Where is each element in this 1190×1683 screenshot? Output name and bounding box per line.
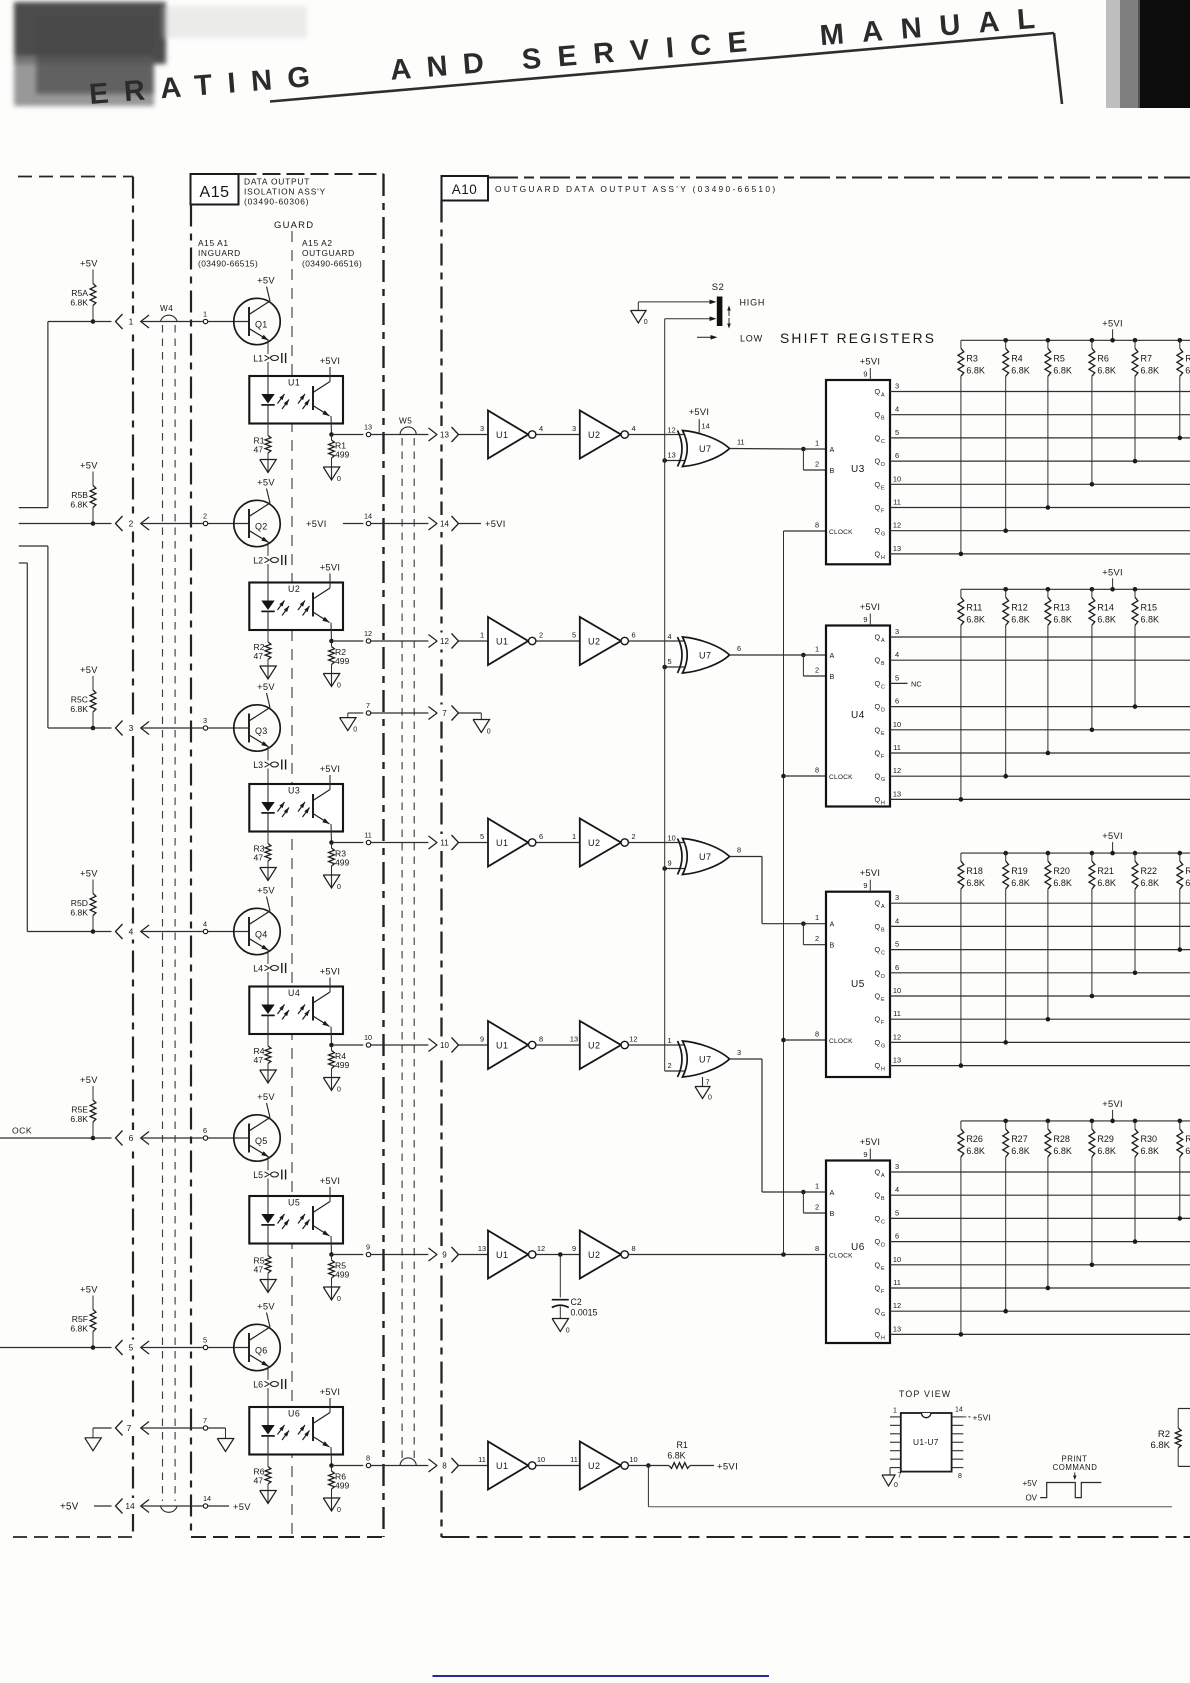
- resistor R27 6.8K pull-up: [1003, 1119, 1008, 1124]
- wire R21 to Q line: [1091, 889, 1093, 996]
- svg-text:L3: L3: [253, 760, 263, 770]
- optocoupler U3 phototransistor: [312, 794, 314, 818]
- svg-text:A: A: [881, 904, 885, 910]
- svg-text:+5VI: +5VI: [320, 764, 341, 774]
- svg-text:4: 4: [895, 650, 899, 659]
- resistor R12 6.8K pull-up: [1003, 587, 1008, 592]
- svg-text:7: 7: [706, 1078, 710, 1087]
- wire junction to connector 3: [93, 727, 112, 729]
- svg-text:U3: U3: [288, 786, 300, 796]
- svg-text:SHIFT REGISTERS: SHIFT REGISTERS: [780, 331, 936, 346]
- resistor R30 6.8K pull-up: [1133, 1119, 1138, 1124]
- IC pin line left 1: [890, 1416, 901, 1418]
- svg-text:U1: U1: [288, 378, 300, 388]
- A10 entry label 9: [438, 1246, 452, 1263]
- svg-text:8: 8: [815, 1244, 819, 1253]
- connector chevron 1: [116, 314, 123, 329]
- svg-text:Q: Q: [875, 1191, 881, 1200]
- svg-text:9: 9: [442, 1251, 447, 1260]
- A10 entry label 11: [438, 834, 452, 851]
- optocoupler U6 box: [249, 1407, 343, 1455]
- svg-text:R5B: R5B: [71, 490, 88, 500]
- svg-text:10: 10: [893, 720, 901, 729]
- svg-text:B: B: [830, 1209, 835, 1218]
- svg-text:U1: U1: [496, 430, 509, 440]
- svg-text:R18: R18: [966, 866, 983, 876]
- svg-text:B: B: [881, 416, 885, 422]
- svg-text:D: D: [881, 1243, 885, 1249]
- svg-text:9: 9: [863, 370, 867, 379]
- svg-text:12: 12: [893, 1032, 901, 1041]
- svg-text:6: 6: [539, 832, 543, 841]
- pin node 2 on A15: [203, 521, 207, 525]
- svg-text:8: 8: [539, 1035, 543, 1044]
- junction R15 pull-up: [1133, 704, 1138, 709]
- ground 0 below R3 499: [323, 875, 340, 888]
- svg-text:6.8K: 6.8K: [1053, 614, 1072, 624]
- IC pin line left 4: [890, 1441, 901, 1443]
- wire row2 to left edge: [19, 523, 93, 525]
- wire R26 to Q line: [960, 1157, 962, 1335]
- junction clock to U4: [781, 774, 786, 779]
- wire bus to XOR lower input row 13: [665, 460, 686, 462]
- svg-text:9: 9: [366, 1243, 370, 1252]
- optocoupler U4 phototransistor: [312, 997, 314, 1021]
- wire pin to transistor Q1 base: [208, 321, 249, 323]
- connector chevron 14: [116, 1499, 123, 1514]
- svg-text:+5VI: +5VI: [1102, 567, 1123, 577]
- XOR gate U7 row 12: [678, 637, 683, 673]
- wire pin 7 to ground right: [208, 1427, 226, 1429]
- svg-text:4: 4: [895, 916, 899, 925]
- svg-text:LOW: LOW: [740, 334, 763, 344]
- wire R18 to Q line: [960, 889, 962, 1066]
- resistor R31 6.8K pull-up: [1178, 1119, 1183, 1124]
- svg-text:2: 2: [815, 1203, 819, 1212]
- XOR gate U7 row 10: [678, 1041, 683, 1077]
- +5VI rail for U3 bank: [961, 339, 1190, 341]
- svg-text:E: E: [881, 1266, 885, 1272]
- svg-text:5: 5: [895, 673, 899, 682]
- ground below R1 47: [260, 460, 277, 473]
- svg-text:OUTGUARD: OUTGUARD: [302, 248, 355, 258]
- clock bus vertical wire: [783, 531, 785, 1255]
- svg-text:+5VI: +5VI: [860, 602, 881, 612]
- svg-text:R1: R1: [677, 1440, 688, 1450]
- svg-text:OUTGUARD DATA OUTPUT ASS'Y (03: OUTGUARD DATA OUTPUT ASS'Y (03490-66510): [495, 184, 777, 194]
- A10 entry chevron 7: [452, 706, 459, 721]
- optocoupler U2 box: [249, 583, 343, 631]
- svg-text:U1: U1: [496, 1250, 509, 1260]
- svg-text:R30: R30: [1141, 1134, 1158, 1144]
- svg-text:8: 8: [442, 1462, 447, 1471]
- wire 10 across W5 with arrow: [371, 1044, 429, 1046]
- A15 bottom border: [191, 1536, 384, 1538]
- svg-text:8: 8: [737, 846, 741, 855]
- svg-text:3: 3: [895, 627, 899, 636]
- buffer U2 row 10: [580, 1021, 621, 1069]
- svg-text:6.8K: 6.8K: [70, 1114, 88, 1124]
- svg-text:7: 7: [127, 1423, 132, 1433]
- wire L5 to optocoupler: [267, 1179, 269, 1215]
- svg-text:B: B: [881, 1196, 885, 1202]
- svg-text:C2: C2: [571, 1297, 582, 1307]
- svg-text:U2: U2: [288, 584, 300, 594]
- svg-text:Q: Q: [875, 992, 881, 1001]
- junction C2 tap: [558, 1252, 563, 1257]
- wire R1 to +5VI: [690, 1465, 714, 1467]
- svg-text:6.8K: 6.8K: [966, 614, 985, 624]
- U3 pin 9 +5VI stub: [869, 368, 871, 380]
- svg-text:H: H: [881, 1067, 885, 1073]
- svg-text:2: 2: [815, 666, 819, 675]
- svg-text:Q: Q: [875, 549, 881, 558]
- svg-text:R19: R19: [1011, 866, 1028, 876]
- transistor Q4: [234, 908, 280, 954]
- wire R2 to right edge: [1177, 1448, 1179, 1466]
- svg-text:Q: Q: [875, 1284, 881, 1293]
- wire U1 to U2 row 11: [536, 842, 580, 844]
- wire Q5 emitter down: [267, 1157, 269, 1171]
- svg-text:4: 4: [129, 927, 134, 937]
- svg-text:14: 14: [125, 1501, 135, 1511]
- svg-text:L2: L2: [253, 556, 263, 566]
- blue pen mark bottom: [433, 1675, 770, 1677]
- svg-text:R15: R15: [1141, 602, 1158, 612]
- wire R19 to Q line: [1005, 889, 1007, 1042]
- junction R12 pull-up: [1003, 774, 1008, 779]
- pin node 9 on A15: [366, 1252, 370, 1256]
- junction R26 pull-up: [959, 1332, 964, 1337]
- svg-text:R4: R4: [1011, 353, 1023, 363]
- buffer U2 row 9: [580, 1231, 621, 1279]
- junction node output 12: [329, 639, 334, 644]
- svg-text:8: 8: [815, 521, 819, 530]
- svg-text:6: 6: [895, 451, 899, 460]
- svg-text:6.8K: 6.8K: [70, 1324, 88, 1334]
- IC pin line left 3: [890, 1433, 901, 1435]
- svg-text:U2: U2: [588, 838, 601, 848]
- wire L6 to optocoupler: [267, 1388, 269, 1425]
- svg-text:L6: L6: [253, 1380, 263, 1390]
- wire clock bus to U3 CLOCK: [784, 530, 827, 532]
- svg-text:Q: Q: [875, 749, 881, 758]
- wire output 13 to pin node: [334, 434, 363, 436]
- svg-text:+5V: +5V: [257, 886, 275, 896]
- svg-text:0: 0: [337, 476, 341, 483]
- transistor Q5: [234, 1115, 280, 1161]
- banner border line: [270, 33, 1054, 102]
- IC pin line left 6: [890, 1458, 901, 1460]
- svg-text:13: 13: [364, 423, 372, 432]
- svg-text:6: 6: [631, 631, 635, 640]
- svg-text:1: 1: [203, 310, 207, 319]
- wire with arrow row 7: [141, 1422, 149, 1435]
- svg-text:1: 1: [815, 1182, 819, 1191]
- optocoupler U4 box: [249, 987, 343, 1035]
- resistor R28 6.8K pull-up: [1046, 1119, 1051, 1124]
- svg-text:U6: U6: [851, 1242, 865, 1253]
- svg-text:499: 499: [335, 858, 350, 868]
- wire row3 feed from left edge: [19, 545, 48, 547]
- svg-text:12: 12: [537, 1244, 545, 1253]
- svg-text:R5: R5: [1053, 353, 1065, 363]
- svg-text:3: 3: [129, 723, 134, 733]
- A10 entry label 10: [438, 1037, 452, 1054]
- svg-text:Q: Q: [875, 968, 881, 977]
- wire R15 to Q line: [1134, 625, 1136, 706]
- svg-text:1: 1: [815, 439, 819, 448]
- junction node output 10: [329, 1043, 334, 1048]
- svg-text:0: 0: [566, 1328, 570, 1335]
- connector chevron 2: [116, 516, 123, 531]
- ground below R5 47: [260, 1280, 277, 1293]
- svg-text:Q: Q: [875, 899, 881, 908]
- svg-text:HIGH: HIGH: [740, 298, 766, 308]
- buffer U2 row 13: [580, 411, 621, 459]
- A10 entry label 14: [438, 515, 452, 532]
- svg-text:C: C: [881, 951, 885, 957]
- wire with arrow into A15 pin 6: [141, 1132, 149, 1145]
- svg-text:Q: Q: [875, 702, 881, 711]
- IC pin line right 12: [952, 1433, 964, 1435]
- svg-text:+5V: +5V: [257, 276, 275, 286]
- ground 0 below R4 499: [323, 1078, 340, 1091]
- junction U6 A input: [801, 1190, 806, 1195]
- optocoupler U6 phototransistor: [312, 1417, 314, 1441]
- A15 title box: [191, 174, 239, 205]
- junction R18 pull-up: [959, 1063, 964, 1068]
- svg-text:Q: Q: [875, 725, 881, 734]
- svg-text:+5V: +5V: [257, 1302, 275, 1312]
- wire output 10 to pin node: [334, 1044, 363, 1046]
- svg-text:13: 13: [570, 1035, 578, 1044]
- svg-text:E: E: [881, 485, 885, 491]
- svg-text:C: C: [881, 1219, 885, 1225]
- svg-text:Q: Q: [875, 1214, 881, 1223]
- A10 top border: [488, 177, 1190, 179]
- svg-text:6.8K: 6.8K: [70, 500, 88, 510]
- svg-text:R6: R6: [1097, 353, 1109, 363]
- junction R30 pull-up: [1133, 1239, 1138, 1244]
- svg-text:CLOCK: CLOCK: [829, 1252, 853, 1259]
- print command pointer arrow: [1074, 1473, 1076, 1478]
- left assembly box top border: [18, 176, 133, 178]
- optocoupler U5 box: [249, 1196, 343, 1244]
- svg-text:Q4: Q4: [255, 930, 268, 940]
- svg-text:Q: Q: [875, 433, 881, 442]
- pin node 7 on A15: [366, 711, 370, 715]
- wire pin 14 across W5 with arrow: [371, 523, 429, 525]
- svg-text:A10: A10: [452, 182, 478, 197]
- optocoupler U4 LED: [267, 987, 269, 1005]
- wire pin to transistor Q6 base: [208, 1347, 249, 1349]
- U5 pin 9 +5VI stub: [869, 880, 871, 892]
- svg-text:8: 8: [631, 1244, 635, 1253]
- buffer U1 row 8: [488, 1442, 528, 1490]
- svg-text:B: B: [881, 661, 885, 667]
- shift register U4 box: [826, 626, 890, 807]
- A15 top border: [239, 173, 384, 175]
- svg-text:12: 12: [893, 766, 901, 775]
- banner title OPERATING AND SERVICE MANUAL: [88, 2, 1054, 111]
- cable W5 shield dashed lines: [401, 438, 403, 1462]
- wire pin to transistor Q3 base: [208, 727, 249, 729]
- resistor R5 6.8K pull-up: [1046, 338, 1051, 343]
- wire pin 14 to +5V: [208, 1505, 229, 1507]
- svg-text:R2: R2: [1158, 1429, 1170, 1440]
- ground row 7 right: [217, 1439, 234, 1452]
- left assembly box bottom border: [13, 1536, 133, 1538]
- +5VI rail for U6 bank: [961, 1120, 1190, 1122]
- svg-text:+5V: +5V: [257, 682, 275, 692]
- svg-text:13: 13: [478, 1244, 486, 1253]
- svg-text:E: E: [881, 731, 885, 737]
- svg-text:6.8K: 6.8K: [966, 878, 985, 888]
- svg-text:+5VI: +5VI: [306, 519, 327, 529]
- svg-text:+5VI: +5VI: [485, 519, 506, 529]
- print command waveform: [1040, 1483, 1101, 1498]
- wire chevron to buffer U1 row 10: [459, 1044, 489, 1046]
- junction node channel 5: [91, 1345, 96, 1350]
- wire R23 to Q line: [1179, 889, 1181, 950]
- svg-text:0: 0: [487, 729, 491, 736]
- junction node channel 1: [91, 319, 96, 324]
- svg-text:11: 11: [893, 743, 901, 752]
- svg-text:0: 0: [894, 1482, 898, 1489]
- wire row1 to left edge: [48, 321, 93, 323]
- optocoupler U2 reception arrows: [298, 601, 305, 611]
- wire pin 7 to ground in A10: [459, 712, 482, 714]
- wire junction to connector 4: [93, 931, 112, 933]
- svg-text:+5VI: +5VI: [689, 407, 710, 417]
- svg-text:6: 6: [129, 1133, 134, 1143]
- svg-text:R5E: R5E: [71, 1105, 88, 1115]
- wire CLOCK feed row5: [0, 1137, 93, 1139]
- wire R30 to Q line: [1134, 1157, 1136, 1242]
- wire U1 to U2 row 9: [536, 1254, 580, 1256]
- svg-text:Q: Q: [875, 795, 881, 804]
- svg-text:+5V: +5V: [80, 461, 98, 471]
- svg-text:E: E: [881, 997, 885, 1003]
- svg-text:H: H: [881, 1335, 885, 1341]
- svg-text:0: 0: [337, 1087, 341, 1094]
- svg-text:+5VI: +5VI: [320, 563, 341, 573]
- svg-text:D: D: [881, 708, 885, 714]
- capacitor C2 0.0015: [559, 1255, 561, 1298]
- black corner block top-right: [1138, 0, 1190, 108]
- resistor R26 6.8K pull-up: [960, 1121, 962, 1129]
- svg-text:+5V: +5V: [80, 259, 98, 269]
- A10 entry label 8: [438, 1457, 452, 1474]
- svg-text:6.8K: 6.8K: [1053, 1146, 1072, 1156]
- connector chevron 5: [116, 1340, 123, 1355]
- junction node output 11: [329, 840, 334, 845]
- wire row6 feed from left edge: [0, 1347, 93, 1349]
- optocoupler U3 LED: [267, 784, 269, 802]
- svg-text:U2: U2: [588, 637, 601, 647]
- svg-text:A: A: [830, 1188, 835, 1197]
- optocoupler U2 LED: [267, 583, 269, 601]
- svg-text:4: 4: [668, 632, 672, 641]
- svg-text:47: 47: [253, 445, 263, 455]
- optocoupler U1 box: [249, 376, 343, 424]
- svg-text:B: B: [830, 941, 835, 950]
- svg-text:A: A: [830, 920, 835, 929]
- pin node 4 on A15: [203, 929, 207, 933]
- junction U5 A input: [801, 921, 806, 926]
- svg-text:0: 0: [708, 1095, 712, 1102]
- svg-text:R5A: R5A: [71, 288, 88, 298]
- wire R5 to Q line: [1047, 376, 1049, 507]
- guard partition dashed line: [291, 231, 293, 1537]
- A10 entry label 13: [438, 426, 452, 443]
- wire U2 to XOR U7 row 10: [628, 1044, 685, 1046]
- buffer U2 row 12: [580, 617, 621, 665]
- wire junction to connector 6: [93, 1137, 112, 1139]
- svg-text:2: 2: [668, 1061, 672, 1070]
- optocoupler U1 LED: [267, 376, 269, 394]
- A10 entry label 7: [438, 705, 452, 722]
- svg-text:Q: Q: [875, 772, 881, 781]
- IC pin line left 2: [890, 1424, 901, 1426]
- svg-text:9: 9: [863, 881, 867, 890]
- wire U2 to XOR U7 row 13: [628, 434, 685, 436]
- wire with arrow into A15 pin 5: [141, 1341, 149, 1354]
- connector chevron 3: [116, 721, 123, 736]
- ground 0 below R5 499: [323, 1287, 340, 1300]
- resistor R4 6.8K pull-up: [1003, 338, 1008, 343]
- cable W5 bottom loop: [400, 1458, 416, 1466]
- A10 entry chevron 9: [452, 1247, 459, 1262]
- junction clock to U5: [781, 1038, 786, 1043]
- pin node 11 on A15: [366, 840, 370, 844]
- wire U1 to U2 row 13: [536, 434, 580, 436]
- pin node 13 on A15: [366, 432, 370, 436]
- svg-text:10: 10: [668, 834, 676, 843]
- svg-text:A: A: [881, 1173, 885, 1179]
- svg-text:Q: Q: [875, 503, 881, 512]
- wire U7 output to U4: [730, 654, 802, 656]
- svg-text:R27: R27: [1011, 1134, 1028, 1144]
- wire +5VI to pin 14: [343, 523, 363, 525]
- pin node 7 inguard: [203, 1426, 207, 1430]
- svg-text:6.8K: 6.8K: [1053, 365, 1072, 375]
- svg-text:12: 12: [629, 1035, 637, 1044]
- svg-text:499: 499: [335, 656, 350, 666]
- svg-text:+5V: +5V: [257, 1092, 275, 1102]
- svg-text:4: 4: [631, 424, 635, 433]
- IC pin line right 11: [952, 1441, 964, 1443]
- svg-text:6.8K: 6.8K: [1011, 1146, 1030, 1156]
- junction R8 pull-up: [1178, 436, 1183, 441]
- resistor R19 6.8K pull-up: [1003, 851, 1008, 856]
- svg-text:Q: Q: [875, 656, 881, 665]
- svg-text:6.8K: 6.8K: [1185, 365, 1190, 375]
- wire U2 to XOR U7 row 12: [628, 640, 685, 642]
- ground below R4 47: [260, 1070, 277, 1083]
- svg-text:Q: Q: [875, 1237, 881, 1246]
- svg-text:3: 3: [572, 424, 576, 433]
- junction R13 pull-up: [1046, 751, 1051, 756]
- optocoupler U1 emission arrows: [278, 394, 285, 404]
- svg-text:4: 4: [895, 405, 899, 414]
- svg-text:11: 11: [737, 438, 745, 447]
- svg-text:1: 1: [572, 832, 576, 841]
- svg-text:U1-U7: U1-U7: [913, 1437, 939, 1447]
- svg-text:R22: R22: [1141, 866, 1158, 876]
- svg-text:U2: U2: [588, 1461, 601, 1471]
